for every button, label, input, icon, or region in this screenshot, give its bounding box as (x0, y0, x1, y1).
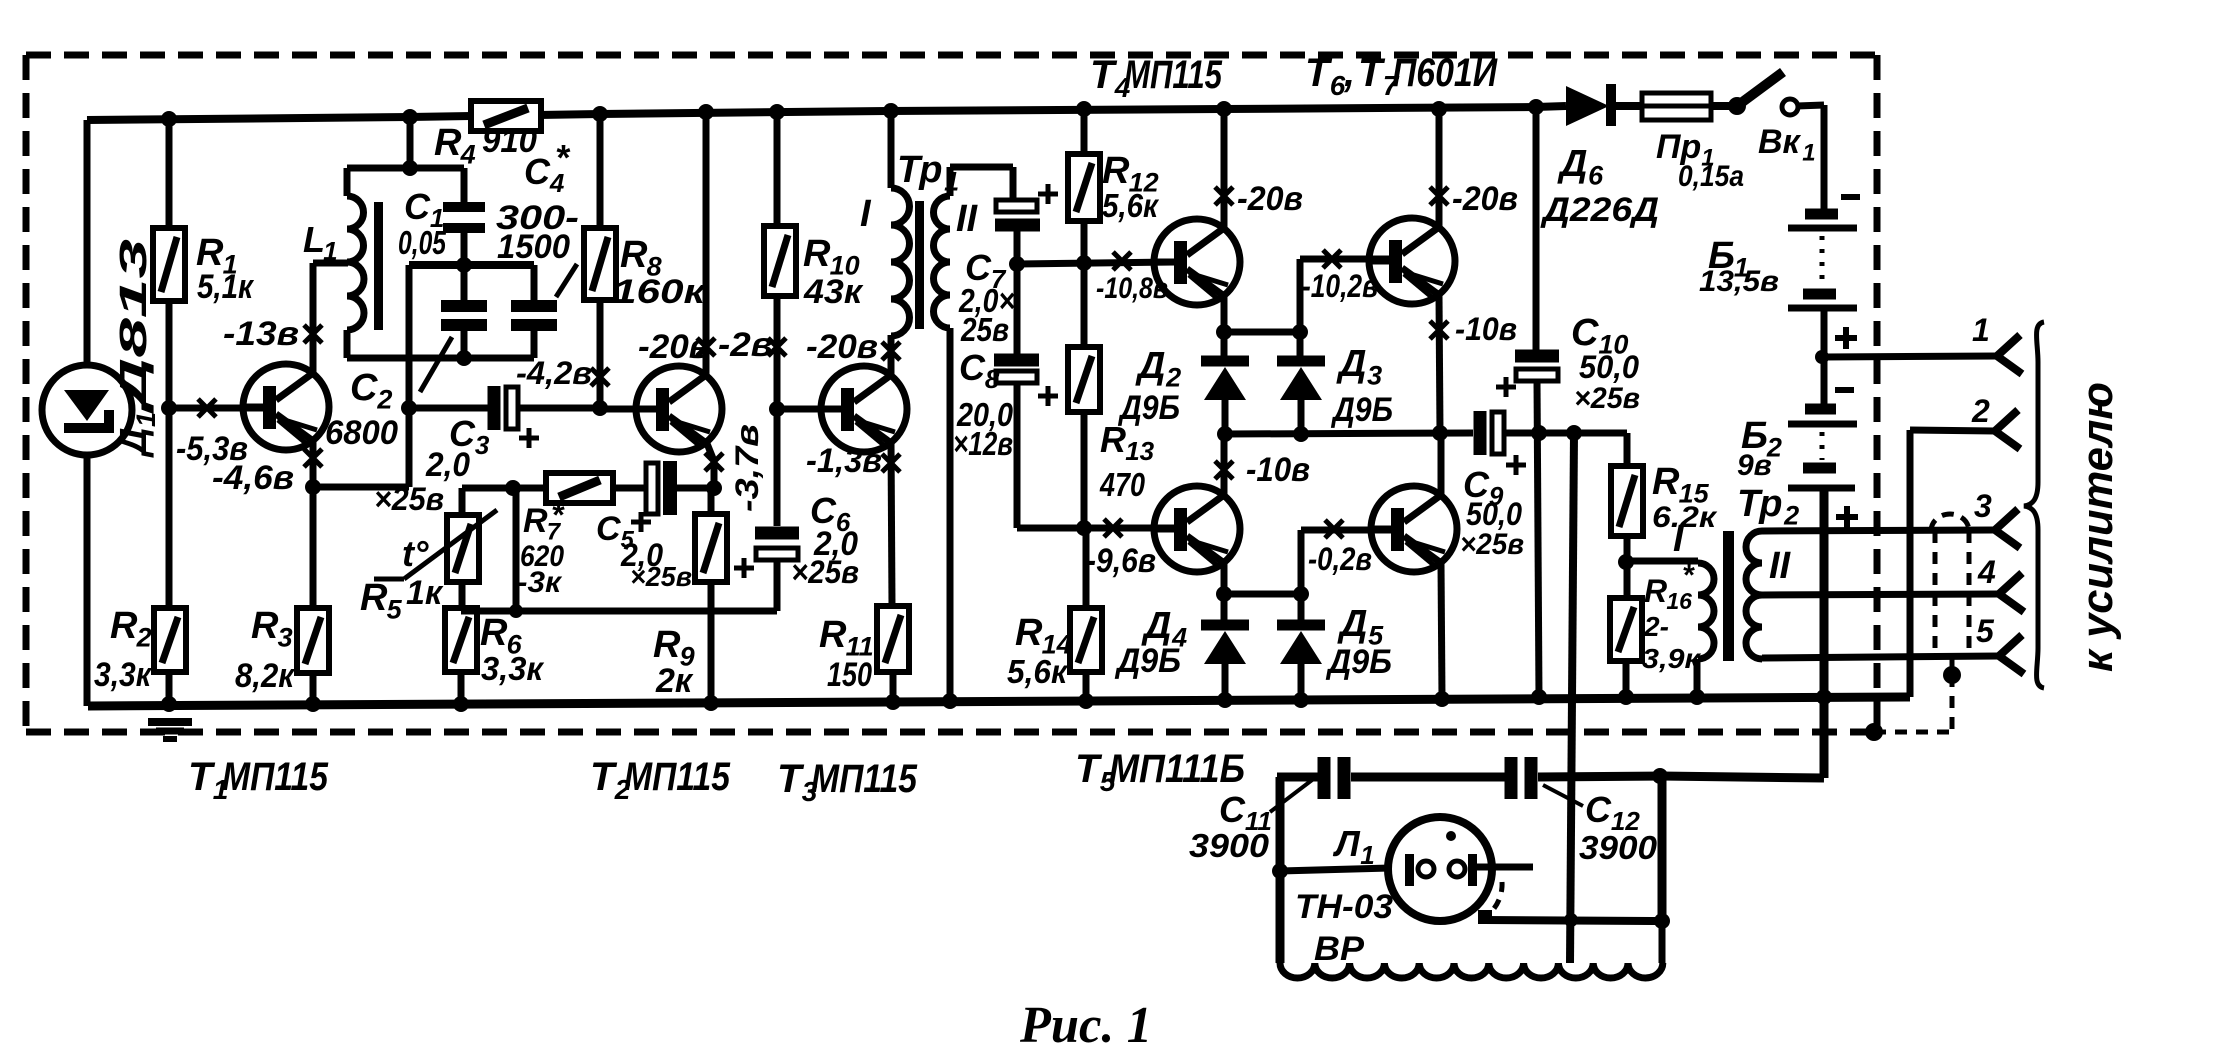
trimmer mark C4 (556, 264, 577, 297)
svg-text:3,3к: 3,3к (481, 650, 545, 687)
wire D4 to ground (1222, 662, 1229, 701)
connector shell dashed arc (1931, 514, 1969, 531)
node dot ground R2 (161, 696, 177, 712)
svg-text:50,0: 50,0 (1579, 349, 1639, 385)
dashed enclosure border left (23, 55, 30, 732)
capacitor C12 (1511, 757, 1531, 799)
svg-text:R: R (620, 234, 648, 276)
svg-text:R: R (110, 605, 138, 647)
svg-text:Т: Т (1305, 51, 1333, 95)
svg-text:Т: Т (1075, 747, 1103, 791)
capacitor C5 electrolytic (613, 485, 648, 492)
measure mark -13в (304, 325, 322, 343)
svg-text:-1,3в: -1,3в (806, 442, 882, 480)
svg-text:ВР: ВР (1314, 930, 1364, 968)
svg-text:2: 2 (376, 384, 392, 414)
wire C12 right (1538, 776, 1660, 777)
resistor R12 (1068, 154, 1100, 221)
svg-text:Д9Б: Д9Б (1114, 642, 1181, 680)
wire C9 to R15 (1504, 430, 1627, 437)
wire fuse to switch (1711, 102, 1734, 110)
diode D4 (Д9Б) (1201, 625, 1249, 664)
svg-text:С: С (1571, 312, 1599, 354)
wire C8 to T5 base node (1017, 525, 1084, 532)
wire R16 to ground (1623, 661, 1630, 698)
wire left column upper (84, 120, 91, 367)
wire D5 to ground (1298, 662, 1305, 701)
svg-text:*: * (551, 497, 565, 533)
wire Tp2 primary top lead (1630, 558, 1698, 565)
wire T1 emitter down (310, 440, 317, 608)
wire pin2 (1910, 430, 1995, 431)
callout C11 (1270, 777, 1316, 812)
node dot ground Tp1 (942, 693, 958, 709)
svg-text:к усилителю: к усилителю (2073, 382, 2122, 672)
svg-text:2к: 2к (655, 662, 694, 700)
measure mark -4,2в (591, 368, 609, 386)
svg-text:-0,2в: -0,2в (1308, 541, 1372, 577)
dashed enclosure border right (1874, 55, 1881, 732)
svg-text:-2в: -2в (718, 326, 773, 364)
resistor R1 (153, 228, 185, 301)
svg-text:-10в: -10в (1246, 451, 1310, 489)
node dot ground D5 (1293, 692, 1309, 708)
svg-text:5: 5 (387, 594, 403, 624)
wire R3 to ground (310, 673, 317, 705)
svg-text:×25в: ×25в (374, 481, 444, 517)
svg-text:Т: Т (1090, 53, 1118, 97)
svg-text:0,15а: 0,15а (1678, 160, 1744, 193)
wire head left column (1276, 777, 1285, 963)
svg-text:Вк: Вк (1758, 123, 1802, 161)
inductor L1 upper half (344, 168, 351, 196)
svg-text:R: R (434, 122, 462, 164)
svg-text:МП115: МП115 (222, 755, 329, 799)
node dot R15 R16 (1618, 554, 1634, 570)
transistor T6 (П601И) (1367, 218, 1455, 304)
svg-text:-4,6в: -4,6в (212, 459, 294, 497)
wire rail to Tp1 primary (888, 111, 895, 188)
svg-text:2,0: 2,0 (425, 446, 470, 484)
battery Б1 (1788, 214, 1857, 308)
wire R5 R6 junction (459, 582, 466, 611)
node dot C1 bus (456, 257, 472, 273)
ground symbol (148, 718, 192, 726)
wire T6 emitter (1439, 295, 1440, 433)
wire R6 to ground (458, 672, 465, 705)
transistor T4 (МП115) (1152, 219, 1240, 305)
wire C10 top (1533, 107, 1540, 351)
wire R14 top (1083, 528, 1090, 608)
wire motor right column bottom (1659, 921, 1666, 963)
measure mark -9,6в (1104, 519, 1122, 537)
node dot rail R10 (769, 104, 785, 120)
wire D4 top stub (1221, 594, 1228, 621)
svg-text:6.2к: 6.2к (1652, 501, 1718, 534)
svg-text:2: 2 (1165, 362, 1181, 392)
node dot ground T7 (1434, 691, 1450, 707)
svg-text:Тр: Тр (897, 149, 942, 191)
svg-text:Д: Д (1336, 343, 1366, 385)
wire diode bus top (1224, 329, 1300, 336)
wire Tp1 secondary top (947, 167, 954, 196)
svg-text:-4,2в: -4,2в (516, 355, 592, 391)
wire C11 left (1277, 773, 1318, 782)
transformer Tp2 primary I (1698, 563, 1714, 659)
svg-text:×25в: ×25в (630, 561, 692, 592)
svg-text:8,2к: 8,2к (235, 657, 296, 695)
wire tank left vertical (406, 265, 413, 487)
svg-text:R: R (803, 233, 831, 275)
measure mark -10,2в (1323, 250, 1341, 268)
resistor R3 (297, 608, 329, 673)
plus Б2 (1836, 506, 1858, 528)
wire to head (1280, 868, 1390, 871)
svg-text:R: R (1652, 461, 1680, 503)
resistor R13 (1068, 347, 1100, 412)
svg-text:-9,6в: -9,6в (1086, 542, 1156, 580)
svg-text:150: 150 (827, 656, 872, 694)
capacitor C1 (461, 168, 468, 203)
resistor R4 trimmer (471, 101, 541, 131)
label minus Б2 (1835, 387, 1854, 393)
svg-text:5,6к: 5,6к (1007, 653, 1069, 690)
plus C10 (1496, 377, 1516, 397)
svg-text:13,5в: 13,5в (1699, 265, 1779, 298)
svg-text:-20в: -20в (806, 328, 878, 366)
measure mark -20в T2 (697, 338, 715, 356)
brace к усилителю (2024, 322, 2044, 688)
node dot motor right (1654, 913, 1670, 929)
svg-text:2: 2 (136, 622, 152, 652)
pin 5 arrow (1999, 635, 2024, 674)
transistor T2 (МП115) (634, 366, 722, 452)
wire rail to tank (407, 117, 414, 168)
wire D2 top stub (1221, 332, 1228, 357)
node dot T5 base junction (1076, 520, 1092, 536)
svg-text:ТН-03: ТН-03 (1295, 888, 1393, 926)
resistor R10 (764, 226, 796, 296)
connector shield stub (1950, 658, 1955, 674)
svg-text:С: С (959, 347, 986, 388)
node dot ground R9 (703, 695, 719, 711)
svg-text:2-: 2- (1643, 611, 1669, 642)
wire R8 column (597, 114, 604, 228)
node dot rail T4 (1216, 101, 1232, 117)
svg-text:Д9Б: Д9Б (1325, 643, 1392, 681)
svg-text:МП115: МП115 (811, 757, 918, 801)
node dot T1 base junction (161, 400, 177, 416)
measure mark -20в T6 (1430, 187, 1448, 205)
wire T5 base net (1084, 525, 1174, 532)
svg-text:3: 3 (1974, 488, 1992, 524)
measure mark -2в (768, 338, 786, 356)
svg-text:Т: Т (590, 755, 618, 799)
transistor T5 (МП111Б) (1152, 486, 1240, 572)
wire motor left column bottom (1277, 871, 1284, 963)
diode D6 (Д226Д) (1566, 84, 1611, 126)
svg-text:МП115: МП115 (1124, 53, 1223, 97)
capacitor C9 electrolytic (1480, 411, 1504, 455)
svg-text:Д226Д: Д226Д (1540, 191, 1659, 229)
wire Б2 down (1820, 488, 1829, 778)
measure mark -10,8в (1113, 252, 1131, 270)
svg-text:*: * (555, 137, 571, 178)
svg-text:3: 3 (278, 622, 293, 652)
wire T7 base riser (1298, 530, 1305, 594)
svg-text:-20в: -20в (638, 328, 710, 366)
svg-text:1500: 1500 (497, 228, 570, 266)
transistor T3 (МП115) (819, 366, 907, 452)
svg-text:Д813: Д813 (113, 239, 155, 415)
measure mark -5,3в (198, 399, 216, 417)
wire tank bottom (347, 355, 534, 362)
svg-text:Д: Д (1337, 603, 1367, 645)
node dot rail R8 (592, 106, 608, 122)
svg-text:5: 5 (1976, 613, 1995, 649)
svg-text:Т: Т (1358, 51, 1386, 95)
wire R15 top (1624, 433, 1631, 466)
svg-text:-3,7в: -3,7в (729, 424, 765, 512)
node dot T3 base C6 (769, 401, 785, 417)
svg-text:I: I (1673, 518, 1685, 560)
svg-text:I: I (860, 193, 872, 235)
svg-text:С: С (1219, 789, 1246, 830)
tape head Л1 (ТН-03) (1388, 817, 1492, 921)
node dot ground R16 (1618, 689, 1634, 705)
measure mark -10в T6 (1430, 321, 1448, 339)
svg-text:1: 1 (1360, 840, 1374, 870)
transformer Tp1 core (915, 201, 924, 329)
node dot tank bottom (456, 350, 472, 366)
plus C8 (1038, 386, 1058, 406)
svg-text:1: 1 (1802, 139, 1815, 166)
wire T5 emitter (1221, 563, 1228, 594)
inductor L1 lower half (347, 262, 364, 330)
node dot ground Tp2 (1689, 689, 1705, 705)
svg-text:43к: 43к (803, 273, 864, 311)
svg-text:1: 1 (131, 412, 161, 427)
wire head right lead (1477, 864, 1533, 871)
node dot C12 net (1652, 768, 1668, 784)
thermistor R5 diagonal (404, 510, 497, 579)
svg-text:С: С (350, 367, 378, 409)
wire pin4 (1762, 594, 1999, 595)
svg-text:Д: Д (1141, 605, 1171, 647)
svg-text:R: R (1644, 573, 1667, 609)
wire T1 emitter branch right (313, 484, 409, 491)
wire bypass down (513, 488, 520, 611)
node dot ground D4 (1217, 692, 1233, 708)
node dot rail T6 (1431, 101, 1447, 117)
svg-text:R: R (1102, 150, 1130, 192)
wire R5 top to R7 node (459, 488, 466, 515)
node dot shield (1943, 666, 1961, 684)
wire R12 top (1081, 109, 1088, 154)
transformer Tp2 secondary II (1746, 531, 1762, 595)
diode D5 (Д9Б) (1277, 625, 1325, 664)
capacitor C7 electrolytic (995, 200, 1040, 225)
node dot D3 top (1292, 324, 1308, 340)
transformer Tp2 core (1723, 531, 1734, 661)
svg-text:160к: 160к (613, 273, 707, 311)
node dot T6 emitter bus (1432, 425, 1448, 441)
svg-text:6: 6 (1588, 160, 1604, 190)
diode D3 (Д9Б) (1277, 361, 1325, 400)
resistor R16 (1610, 598, 1642, 661)
node dot rail Tp1 (883, 103, 899, 119)
svg-text:3: 3 (475, 430, 490, 460)
svg-text:,: , (1343, 51, 1355, 95)
node dot R7 bypass (505, 480, 521, 496)
node dot T4 base junction (1076, 255, 1092, 271)
plus C5 (631, 512, 651, 532)
fuse Пр1 (1642, 93, 1711, 120)
transistor T1 (МП115) (241, 364, 329, 450)
node dot ground battery (1816, 689, 1832, 705)
battery Б2 (1788, 409, 1857, 488)
wire D3 top stub (1297, 332, 1304, 357)
plus C7 (1038, 184, 1058, 204)
resistor R11 (877, 606, 909, 672)
wire C6 bottom (774, 560, 781, 611)
label minus Б1 (1841, 194, 1860, 200)
capacitor C3 electrolytic (494, 386, 518, 430)
node dot C7 junction (1009, 256, 1025, 272)
svg-text:5,6к: 5,6к (1102, 187, 1160, 224)
node dot rail R12 (1076, 101, 1092, 117)
svg-text:-10в: -10в (1455, 311, 1517, 347)
wire T4 emitter (1221, 296, 1228, 332)
wire pin3 (1762, 530, 1995, 531)
svg-text:×25в: ×25в (1460, 528, 1524, 561)
node dot rail tank (402, 109, 418, 125)
svg-text:Д: Д (1135, 345, 1165, 387)
inductor L1 core bar (374, 202, 383, 330)
svg-text:1: 1 (1972, 312, 1990, 348)
wire T2 collector (703, 112, 710, 374)
measure mark -0,2в (1325, 520, 1343, 538)
node dot D2 bottom (1217, 426, 1233, 442)
svg-text:6800: 6800 (325, 414, 398, 452)
node dot ground R14 (1078, 693, 1094, 709)
node dot T5 emitter (1216, 586, 1232, 602)
node dot tank top (402, 160, 418, 176)
connector shell dashed left (1933, 531, 1938, 658)
svg-text:1к: 1к (406, 574, 444, 612)
wire T4 base net (1017, 262, 1176, 264)
pin 2 arrow (1995, 410, 2020, 449)
zener diode D1 (Д1 Д813) (42, 365, 132, 455)
wire Б1 to junction (1821, 308, 1828, 404)
node dot T4 emitter (1216, 324, 1232, 340)
measure mark -20в T3 (882, 342, 900, 360)
svg-text:13: 13 (1125, 436, 1154, 466)
node dot D3 bottom (1293, 426, 1309, 442)
node dot rail C10 (1528, 99, 1544, 115)
wire C10 bottom to ground (1537, 381, 1539, 698)
wire output branch down (1570, 433, 1574, 963)
wire R14 to ground (1083, 672, 1090, 701)
wire T6 collector (1436, 109, 1443, 227)
wire R10 column (774, 112, 781, 226)
transistor T7 (П601И) (1369, 486, 1457, 572)
transformer Tp1 secondary II (934, 196, 950, 328)
svg-text:3,9к: 3,9к (1642, 643, 1702, 674)
node dot battery junction (1815, 350, 1829, 364)
dashed enclosure border bottom (26, 729, 1874, 736)
svg-text:Д9Б: Д9Б (1117, 389, 1180, 427)
node dot T2 base (592, 400, 608, 416)
pin 4 arrow (1999, 573, 2024, 612)
node dot rail R1 (161, 111, 177, 127)
resistor R7 trimmer (546, 473, 613, 503)
node dot ground R6 (453, 696, 469, 712)
node dot C5 R9 (706, 480, 722, 496)
svg-text:-20в: -20в (1452, 180, 1518, 218)
thermistor R5 (447, 515, 479, 582)
svg-text:0,05: 0,05 (398, 224, 446, 261)
wire R12 R13 (1081, 221, 1088, 347)
wire D6 to fuse (1536, 106, 1566, 107)
svg-text:2: 2 (1783, 500, 1799, 530)
connector shell dashed right (1967, 531, 1972, 658)
svg-text:МП115: МП115 (624, 755, 731, 799)
wire T5 collector (1221, 434, 1228, 495)
node dot ground R11 (885, 694, 901, 710)
svg-text:t°: t° (402, 533, 429, 574)
wire T3 base (777, 406, 842, 413)
svg-text:5,1к: 5,1к (197, 268, 255, 306)
wire R11 to ground (890, 672, 897, 702)
dashed head shield arc (1490, 882, 1502, 913)
svg-text:L: L (303, 219, 325, 260)
svg-text:II: II (1769, 545, 1792, 587)
diode D2 (Д9Б) (1201, 361, 1249, 400)
svg-text:9в: 9в (1737, 449, 1772, 482)
svg-text:3900: 3900 (1189, 827, 1270, 864)
wire C3 left (409, 405, 488, 412)
svg-text:Т: Т (188, 755, 216, 799)
svg-text:Д9Б: Д9Б (1330, 391, 1393, 429)
wire T3 collector (888, 335, 895, 374)
wire diode bus bottom (1224, 591, 1301, 598)
svg-text:4: 4 (460, 139, 476, 169)
svg-text:R: R (360, 577, 388, 619)
wire D2 bottom stub (1222, 398, 1229, 434)
node dot T1 emitter branch (305, 479, 321, 495)
wire Tp2 primary bottom (1694, 659, 1701, 698)
svg-text:910: 910 (482, 122, 537, 160)
svg-text:×25в: ×25в (1574, 382, 1640, 415)
wire T4 collector (1221, 109, 1228, 228)
svg-text:3900: 3900 (1579, 829, 1658, 866)
measure mark -10в T5 (1215, 461, 1233, 479)
svg-text:Д: Д (113, 428, 155, 458)
wire switch to battery (1797, 105, 1824, 106)
callout C12 (1543, 785, 1583, 806)
svg-text:R: R (251, 605, 279, 647)
node dot ground C10 (1531, 689, 1547, 705)
wire output bus -10в (1224, 433, 1473, 434)
wire C6 top (774, 409, 781, 526)
svg-text:R: R (480, 612, 508, 654)
dashed enclosure border top (26, 52, 1877, 59)
wire R15 R16 junction (1624, 536, 1631, 598)
resistor R2 (154, 608, 186, 672)
capacitor C6 electrolytic (755, 533, 799, 560)
wire R9 to ground (708, 582, 715, 703)
